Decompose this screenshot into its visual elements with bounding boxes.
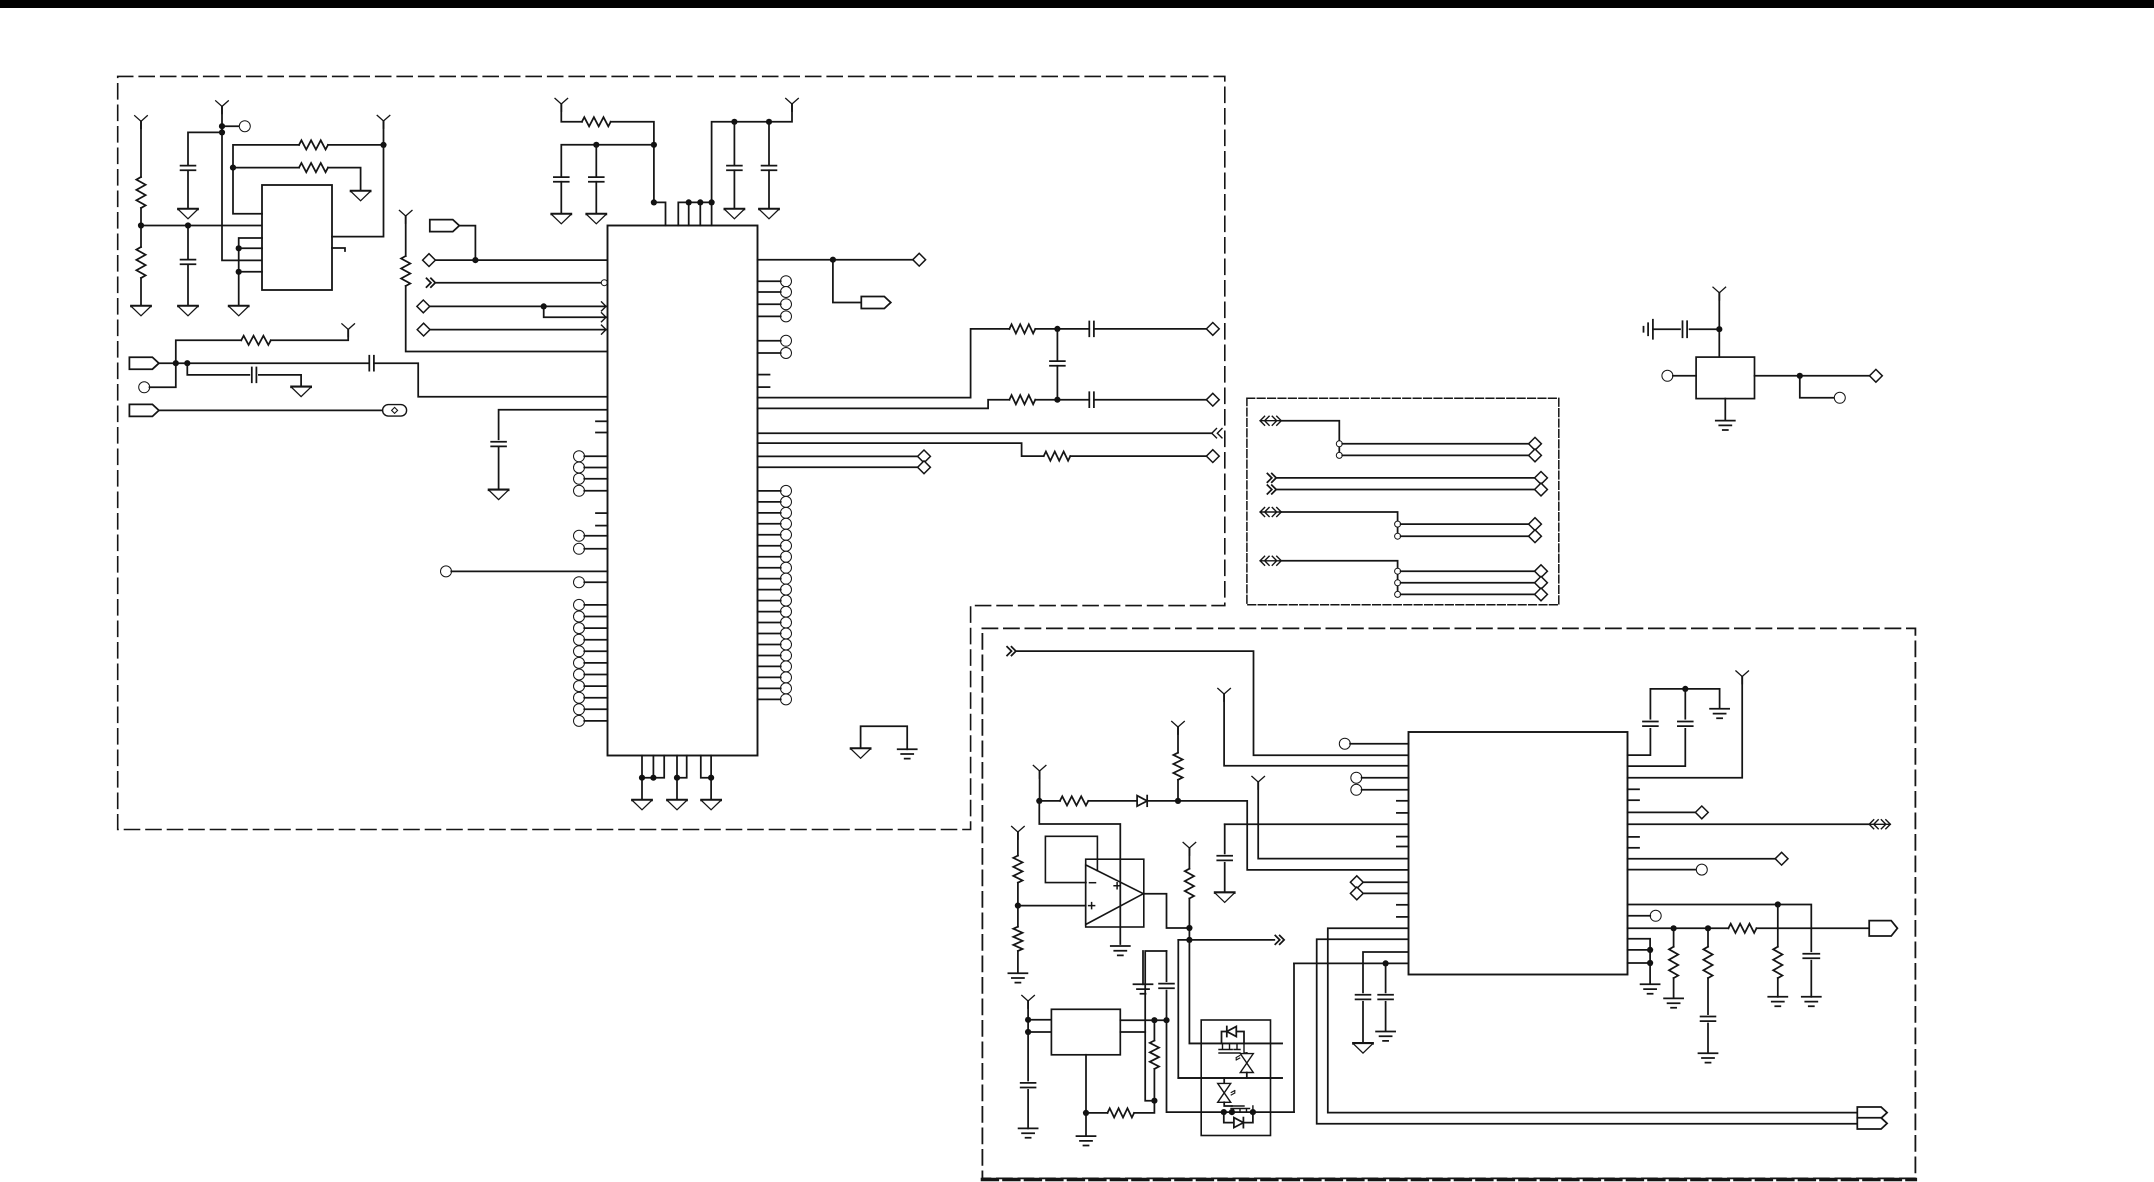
wire U5 out 858 bbox=[1628, 858, 1776, 860]
pin tick U5L4 bbox=[1397, 800, 1409, 802]
ground GND7 bbox=[489, 490, 508, 500]
open pin circle R19 bbox=[758, 617, 792, 628]
open pin circle R10 bbox=[758, 518, 792, 529]
wire C4 to ground bbox=[259, 375, 301, 387]
diode DD1 bbox=[1137, 796, 1147, 807]
open pin circle R22 bbox=[758, 650, 792, 661]
wire U3 out bbox=[1755, 375, 1870, 377]
open pin circle U3in bbox=[1662, 370, 1673, 381]
capacitor C7 bbox=[589, 177, 604, 182]
wire VCCb to R12 bbox=[1177, 727, 1179, 753]
junction top net 1 bbox=[651, 142, 657, 148]
net chevron N2 bbox=[1212, 429, 1222, 438]
capacitor C12 bbox=[1089, 392, 1094, 407]
wire R20 lead bbox=[1673, 928, 1675, 946]
wire N1 to IC1 bbox=[437, 282, 602, 284]
wire C14 node to U5 pin 825 bbox=[1225, 823, 1409, 825]
junction sense top bbox=[1151, 1017, 1157, 1023]
junction bot 2 bbox=[650, 775, 656, 781]
pin tick U5L6 bbox=[1397, 836, 1409, 838]
pin 700 vertical bbox=[699, 202, 701, 225]
voltage regulator U6 bbox=[1051, 1009, 1120, 1055]
wire VCCf to C15 bbox=[1027, 1032, 1029, 1081]
wire R4 left lead bbox=[233, 167, 299, 169]
pin tick U5L9 bbox=[1397, 916, 1409, 918]
junction U2 gnd 2 bbox=[236, 269, 242, 275]
wire op-amp output bbox=[1143, 894, 1189, 928]
wire R14 to ground bbox=[1017, 951, 1019, 972]
wire bridge row1 feed bbox=[1189, 940, 1282, 1044]
wire R17 top bbox=[1153, 1020, 1155, 1040]
pin tick L2 bbox=[596, 432, 608, 434]
open pin circle R3 bbox=[758, 299, 792, 310]
junction Q2 c bbox=[1250, 1109, 1256, 1115]
open pin circle R2 bbox=[758, 287, 792, 298]
junction top rail bbox=[1682, 686, 1688, 692]
wire E8 stem bbox=[1142, 951, 1144, 984]
earth ground E9 bbox=[1376, 1032, 1395, 1041]
wire IC1 out 397 to RC bbox=[758, 329, 1010, 398]
pin tick L4 bbox=[596, 525, 608, 527]
ic U2 bbox=[262, 185, 332, 290]
wire IC1 out 408 to RC bbox=[758, 400, 1010, 409]
ground GND5 bbox=[229, 306, 248, 316]
wire R4 right lead to ground bbox=[328, 168, 361, 191]
wire top rail bbox=[1650, 688, 1719, 690]
wire R16 to sense column bbox=[1134, 1101, 1154, 1113]
open pin circle L6 bbox=[574, 462, 608, 473]
power symbol VCC3 bbox=[377, 115, 390, 128]
net diamond D9 bbox=[918, 461, 931, 474]
capacitor C18 bbox=[1378, 995, 1393, 1000]
wire VCC1 to R1 bbox=[140, 121, 142, 177]
pin tick U5R1 bbox=[1628, 788, 1640, 790]
wire D1 to IC1 bbox=[435, 259, 607, 261]
open pin circle R16 bbox=[758, 584, 792, 595]
wire C1 to ground bbox=[187, 171, 189, 209]
ground GND12 bbox=[632, 800, 651, 810]
pin tick R2 bbox=[758, 386, 770, 388]
wire C7 branch bbox=[595, 145, 597, 177]
capacitor C14 bbox=[1217, 856, 1232, 861]
junction reg in 1 bbox=[1025, 1017, 1031, 1023]
wire IC1 out 432 bbox=[758, 432, 1212, 434]
wire VCC2 down to U2 pin bbox=[222, 106, 262, 260]
capacitor C6 bbox=[554, 177, 569, 182]
wire N4 to D14 bbox=[1277, 489, 1534, 491]
ground GND9 bbox=[587, 214, 606, 224]
wire R17 bottom bbox=[1153, 1069, 1155, 1101]
resistor R3 bbox=[299, 140, 328, 149]
junction bot 4 bbox=[708, 775, 714, 781]
net flag F3 bbox=[129, 404, 159, 416]
wire R18 lead bbox=[1777, 905, 1779, 947]
wire C8 to ground bbox=[733, 170, 735, 209]
wire C14 top lead bbox=[1224, 824, 1226, 853]
net diamond D10 bbox=[1870, 369, 1883, 382]
open pin circle L22 bbox=[574, 715, 608, 726]
wire R21 lead bbox=[1707, 928, 1709, 946]
bottom pin 677 bbox=[676, 756, 678, 801]
tvs diode Z1 bbox=[1238, 1051, 1255, 1076]
resistor R2 bbox=[136, 247, 145, 278]
wire C9 top lead bbox=[768, 122, 770, 166]
open pin circle R12 bbox=[758, 540, 792, 551]
wire B3b to D18 bbox=[1401, 582, 1535, 584]
open pin circle R21 bbox=[758, 639, 792, 650]
net diamond D1 bbox=[423, 254, 436, 267]
pin tick U5L8 bbox=[1397, 904, 1409, 906]
earth ground E12 bbox=[1768, 997, 1787, 1006]
output flag F7 bbox=[1869, 921, 1897, 936]
wire reg pin 1 bbox=[1028, 1019, 1051, 1021]
open pin circle R20 bbox=[758, 628, 792, 639]
wire B1b to D12 bbox=[1342, 454, 1528, 456]
resistor R1 bbox=[136, 177, 145, 208]
net diamond D11 bbox=[1529, 437, 1542, 450]
bottom pin bridge 2 bbox=[677, 756, 687, 778]
wire comp out row bbox=[1178, 939, 1274, 941]
wire U2 pin stub 1 bbox=[239, 247, 262, 249]
wire VCCf down bbox=[1027, 1001, 1029, 1032]
wire R8 to C10 bbox=[1035, 328, 1089, 330]
junction F2 node 1 bbox=[173, 360, 179, 366]
wire C7 to ground bbox=[595, 182, 597, 214]
junction output B bbox=[1186, 937, 1192, 943]
junction VCC2 node 2 bbox=[219, 129, 225, 135]
resistor R8 bbox=[1009, 324, 1035, 333]
earth ground E8 bbox=[1134, 984, 1153, 993]
junction node A bbox=[138, 222, 144, 228]
power symbol VCCe bbox=[1183, 842, 1196, 855]
wire U2 ground bus bbox=[239, 238, 262, 306]
junction reg gnd bbox=[1083, 1110, 1089, 1116]
wire U5 out 812 bbox=[1628, 811, 1696, 813]
wire R6 right to VCC7 bbox=[271, 329, 348, 340]
wire Cb top bbox=[1684, 689, 1686, 719]
open pin circle L20 bbox=[574, 692, 608, 703]
wire node 2 to C1 bbox=[188, 132, 222, 165]
wire TVS2 to Q2 gate bbox=[1224, 1102, 1232, 1106]
wire C10 to D5 bbox=[1094, 328, 1206, 330]
diode DB1 loop bbox=[1222, 1027, 1245, 1044]
net chevron N4 bbox=[1267, 485, 1276, 494]
open pin circle L19 bbox=[574, 681, 608, 692]
wire P3 to IC1 bbox=[451, 570, 607, 572]
open pin circle R5 bbox=[758, 335, 792, 346]
ground GND3 bbox=[178, 306, 197, 316]
wire TVS1 to row2 bbox=[1246, 1073, 1248, 1079]
power symbol VCC8 bbox=[1713, 287, 1726, 300]
open pin circle U3br bbox=[1834, 392, 1845, 403]
junction pin 963 bbox=[1383, 960, 1389, 966]
junction rail c9 bbox=[766, 119, 772, 125]
resistor R11 bbox=[1060, 796, 1088, 805]
capacitor C9 bbox=[762, 166, 777, 171]
open pin circle P1 bbox=[239, 121, 250, 132]
junction RC top bbox=[1054, 326, 1060, 332]
wire IC1 out 456 bbox=[758, 455, 918, 457]
junction out 904 bbox=[1775, 901, 1781, 907]
ground GND6 bbox=[292, 387, 311, 397]
resistor R7 bbox=[582, 117, 611, 126]
earth ground E11 bbox=[1802, 997, 1821, 1006]
bottom pin 653 bbox=[652, 756, 654, 778]
pin circle B3b bbox=[1395, 580, 1401, 586]
wire C13 to node bbox=[1690, 328, 1720, 330]
open pin circle L21 bbox=[574, 704, 608, 715]
capacitor C19 bbox=[1803, 954, 1819, 959]
junction F1 node bbox=[472, 257, 478, 263]
resistor R12 bbox=[1173, 753, 1182, 780]
junction diode row left bbox=[1036, 798, 1042, 804]
wire N3 to D13 bbox=[1277, 477, 1534, 479]
earth ground E6 bbox=[1019, 1128, 1038, 1137]
junction R3/VCC3 bbox=[380, 142, 386, 148]
open pin circle L11 bbox=[574, 577, 608, 588]
pin tick L3 bbox=[596, 512, 608, 514]
capacitor C10 bbox=[1089, 322, 1094, 337]
capacitor C16 bbox=[1159, 984, 1174, 989]
wire U5 pin 928 column bbox=[1328, 928, 1857, 1112]
wire R2 to ground bbox=[140, 278, 142, 306]
diode DB2 loop bbox=[1224, 1112, 1253, 1128]
resistor R16 bbox=[1108, 1108, 1135, 1117]
mosfet bridge box bbox=[1201, 1020, 1270, 1136]
junction pins 3 bbox=[709, 199, 715, 205]
wire VCCc node down to opamp column bbox=[1039, 801, 1120, 944]
junction Q2 b bbox=[1229, 1109, 1235, 1115]
ground GND1 bbox=[131, 306, 150, 316]
pin tick U5L5 bbox=[1397, 812, 1409, 814]
resistor R21 bbox=[1703, 947, 1712, 978]
ground GND14 bbox=[702, 800, 721, 810]
wire U5D1 stub bbox=[1363, 881, 1408, 883]
wire reg out row bbox=[1120, 1019, 1166, 1021]
wire reg gnd to R16 bbox=[1086, 1112, 1108, 1114]
wire rail to C2 bbox=[187, 226, 189, 260]
zener mark Z2 bbox=[1231, 1091, 1235, 1096]
junction F2 node 2 bbox=[184, 360, 190, 366]
wire R12 to node bbox=[1177, 780, 1179, 801]
wire U5 out 928 bbox=[1628, 927, 1729, 929]
wire C5 to ground bbox=[498, 447, 500, 490]
wire VCCd to R13 bbox=[1017, 832, 1019, 856]
net chevron N1 bbox=[427, 278, 436, 287]
pin tick L1 bbox=[596, 420, 608, 422]
resistor R5 bbox=[401, 256, 410, 286]
wire VCC5 to R7 bbox=[561, 104, 582, 122]
junction sense low bbox=[1151, 1098, 1157, 1104]
bus connector B3 bbox=[1260, 556, 1281, 565]
wire branch to F4 bbox=[833, 260, 861, 303]
wire VCCe to R15 bbox=[1188, 848, 1190, 869]
wire U3 out branch bbox=[1800, 376, 1835, 398]
feedback loop wire bbox=[1045, 836, 1097, 882]
wire D2 branch bbox=[544, 306, 608, 317]
power symbol VCCg bbox=[1252, 776, 1265, 789]
junction 928 b bbox=[1705, 925, 1711, 931]
test point TP1 bbox=[383, 405, 407, 417]
wire rail to earth bbox=[1719, 689, 1721, 708]
wire U5 pin 963 row bbox=[1294, 962, 1409, 964]
wire F1 to node bbox=[459, 226, 475, 261]
wire VCC3 to U2 right pin bbox=[332, 121, 384, 237]
wire IC1 pin 410 to C5 bbox=[499, 410, 608, 440]
ground GND15 bbox=[851, 749, 870, 759]
wire node to open pin bbox=[222, 125, 240, 127]
open pin circle L14 bbox=[574, 623, 608, 634]
net diamond D18 bbox=[1535, 576, 1548, 589]
junction pins 2 bbox=[697, 199, 703, 205]
ground GND17 bbox=[1353, 1043, 1372, 1053]
net diamond D7 bbox=[1206, 450, 1219, 463]
power symbol VCC2 bbox=[216, 101, 229, 114]
net diamond D21 bbox=[1775, 852, 1788, 865]
wire decoupling branch bbox=[561, 145, 654, 177]
capacitor C2 bbox=[181, 260, 196, 265]
wire E2 to C13 bbox=[1653, 328, 1680, 330]
wire R1 to node bbox=[140, 208, 142, 226]
net diamond U5D2 bbox=[1350, 887, 1363, 900]
open pin circle L9 bbox=[574, 530, 608, 541]
net diamond U5D1 bbox=[1350, 876, 1363, 889]
open pin circle P3 bbox=[441, 566, 452, 577]
wire reg out up bbox=[1145, 951, 1166, 1032]
open pin circle L8 bbox=[574, 485, 608, 496]
earth ground E3 bbox=[1716, 421, 1735, 430]
capacitor C3 bbox=[369, 356, 374, 371]
ic U5 bbox=[1409, 732, 1628, 975]
wire rail node A to U2 bbox=[141, 225, 262, 227]
wire bridge row2 bbox=[1178, 1077, 1282, 1079]
open pin circle L17 bbox=[574, 657, 608, 668]
wire R7 to pin jog bbox=[611, 122, 654, 203]
power symbol VCCd bbox=[1012, 826, 1025, 839]
junction on rail at C2 bbox=[185, 222, 191, 228]
junction decoupling bbox=[593, 142, 599, 148]
power symbol VCC1 bbox=[135, 116, 148, 129]
resistor R6 bbox=[241, 336, 271, 345]
earth ground E5 bbox=[1008, 973, 1027, 982]
junction diode row right bbox=[1175, 798, 1181, 804]
bottom pin bridge 3 bbox=[701, 756, 711, 778]
wire U5D2 stub bbox=[1363, 892, 1408, 894]
net diamond D4 bbox=[913, 253, 926, 266]
pin circle B2b bbox=[1395, 533, 1401, 539]
wire U5 pin 952 bbox=[1363, 952, 1409, 992]
bus connector B2 bbox=[1260, 508, 1281, 517]
open pin circle L13 bbox=[574, 611, 608, 622]
wire C11 top lead bbox=[1056, 329, 1058, 361]
wire C14 to ground bbox=[1224, 863, 1226, 893]
wire U3 in bbox=[1673, 375, 1696, 377]
open pin circle R18 bbox=[758, 606, 792, 617]
capacitor C15in bbox=[1021, 1083, 1036, 1088]
junction output A bbox=[1186, 925, 1192, 931]
open pin circle R11 bbox=[758, 529, 792, 540]
ground GND13 bbox=[667, 800, 686, 810]
wire B3 bbox=[1281, 561, 1398, 595]
dashed border of connector section (middle-right box) bbox=[1247, 398, 1559, 605]
wire C8 top lead bbox=[733, 122, 735, 166]
power symbol VCC7 bbox=[342, 324, 355, 337]
wire B3a to D17 bbox=[1401, 570, 1535, 572]
junction bot 1 bbox=[639, 775, 645, 781]
bottom pin bridge 1 bbox=[642, 756, 664, 778]
ground GND8 bbox=[552, 214, 571, 224]
bus connector B1 bbox=[1260, 416, 1281, 425]
earth ground E4 bbox=[1111, 946, 1130, 955]
earth ground E13 bbox=[1664, 998, 1683, 1007]
junction Q2 a bbox=[1221, 1109, 1227, 1115]
tvs diode Z2 bbox=[1216, 1080, 1233, 1105]
op-amp U4 bbox=[1086, 859, 1144, 927]
pin tick U5L7 bbox=[1397, 846, 1409, 848]
capacitor Ca bbox=[1643, 722, 1658, 727]
net diamond D17 bbox=[1535, 565, 1548, 578]
wire R18 to earth bbox=[1777, 978, 1779, 997]
wire VCC8 to U3 bbox=[1718, 293, 1720, 357]
net diamond D13 bbox=[1535, 472, 1548, 485]
net diamond D15 bbox=[1529, 518, 1542, 531]
wire F2 row bbox=[159, 362, 369, 364]
wire C15 to ground bbox=[1027, 1090, 1029, 1129]
pin 688 vertical bbox=[688, 202, 690, 225]
junction D2 branch bbox=[541, 303, 547, 309]
earth ground E15 bbox=[1641, 984, 1660, 993]
ground GND2 bbox=[178, 209, 197, 219]
ground GND10 bbox=[725, 209, 744, 219]
wire C18 to earth bbox=[1385, 1002, 1387, 1031]
pin arrow 1 bbox=[602, 302, 607, 311]
wire U5 pin 939 column bbox=[1317, 939, 1857, 1123]
power symbol VCC4 bbox=[399, 210, 412, 223]
wire D3 to IC1 bbox=[430, 329, 608, 331]
earth ground E1 bbox=[898, 749, 917, 758]
wire VCCg to U5 pin 858 bbox=[1258, 782, 1408, 859]
junction 928 a bbox=[1671, 925, 1677, 931]
capacitor C4 bbox=[252, 368, 257, 383]
wire IC1 out 259 bbox=[758, 259, 914, 261]
wire R5 to IC1 pin row 351 bbox=[406, 286, 608, 352]
ground GND16 bbox=[1215, 893, 1234, 903]
wire U3 gnd bbox=[1724, 399, 1726, 421]
pin circle B1b bbox=[1336, 452, 1342, 458]
wire U5 out 869 bbox=[1628, 869, 1697, 871]
wire B3c to D19 bbox=[1401, 593, 1535, 595]
wire N5 to U5 pin 755 bbox=[1017, 651, 1408, 755]
ic U3 bbox=[1696, 357, 1754, 399]
open pin circle R14 bbox=[758, 562, 792, 573]
open pin circle P2 bbox=[139, 382, 150, 393]
junction out 259 bbox=[830, 257, 836, 263]
wire C18 lead bbox=[1385, 963, 1387, 992]
open pin circle R4 bbox=[758, 311, 792, 322]
net flag F2 bbox=[129, 357, 159, 369]
power symbol VCCa bbox=[1218, 688, 1231, 701]
earth ground E10 bbox=[1710, 709, 1729, 718]
bus connector B4 bbox=[1869, 820, 1890, 829]
open pin circle L12 bbox=[574, 599, 608, 610]
wire B2 bbox=[1281, 512, 1398, 536]
capacitor C17 bbox=[1356, 995, 1371, 1000]
open pin circle L15 bbox=[574, 634, 608, 645]
power symbol VCC6 bbox=[786, 98, 799, 111]
wire C2 to ground bbox=[187, 265, 189, 306]
open pin circle U5R5 bbox=[1696, 864, 1707, 875]
junction gnd pin 2 bbox=[1647, 960, 1653, 966]
